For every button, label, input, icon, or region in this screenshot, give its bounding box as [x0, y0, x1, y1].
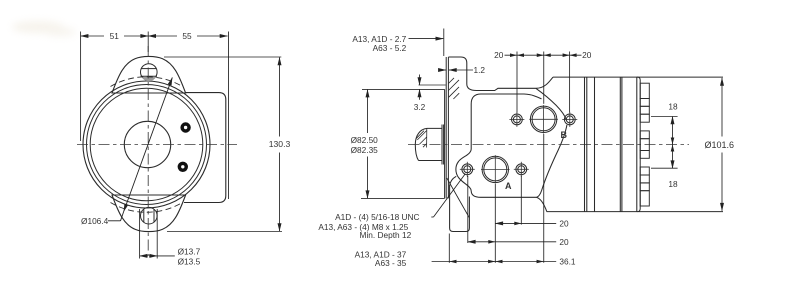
svg-text:A63 - 35: A63 - 35	[375, 258, 407, 268]
svg-text:B: B	[561, 130, 568, 140]
svg-text:36.1: 36.1	[559, 256, 576, 266]
svg-text:51: 51	[110, 31, 120, 41]
svg-text:Ø13.5: Ø13.5	[178, 256, 201, 266]
svg-text:3.2: 3.2	[414, 102, 426, 112]
svg-text:20: 20	[559, 218, 569, 228]
svg-text:Ø101.6: Ø101.6	[705, 140, 735, 150]
svg-text:20: 20	[494, 50, 504, 60]
svg-text:55: 55	[182, 31, 192, 41]
svg-text:A1D - (4) 5/16-18 UNC: A1D - (4) 5/16-18 UNC	[335, 212, 419, 222]
svg-text:Ø82.35: Ø82.35	[351, 145, 379, 155]
svg-text:130.3: 130.3	[269, 139, 291, 149]
svg-text:1.2: 1.2	[473, 65, 485, 75]
svg-text:Ø106.4: Ø106.4	[81, 216, 109, 226]
svg-text:Min. Depth 12: Min. Depth 12	[360, 230, 412, 240]
svg-text:Ø13.7: Ø13.7	[178, 246, 201, 256]
svg-text:A: A	[505, 181, 512, 191]
svg-text:18: 18	[668, 102, 678, 112]
svg-text:20: 20	[559, 237, 569, 247]
svg-text:20: 20	[582, 50, 592, 60]
svg-text:18: 18	[668, 179, 678, 189]
svg-text:A63 - 5.2: A63 - 5.2	[373, 43, 407, 53]
svg-text:Ø82.50: Ø82.50	[351, 135, 379, 145]
